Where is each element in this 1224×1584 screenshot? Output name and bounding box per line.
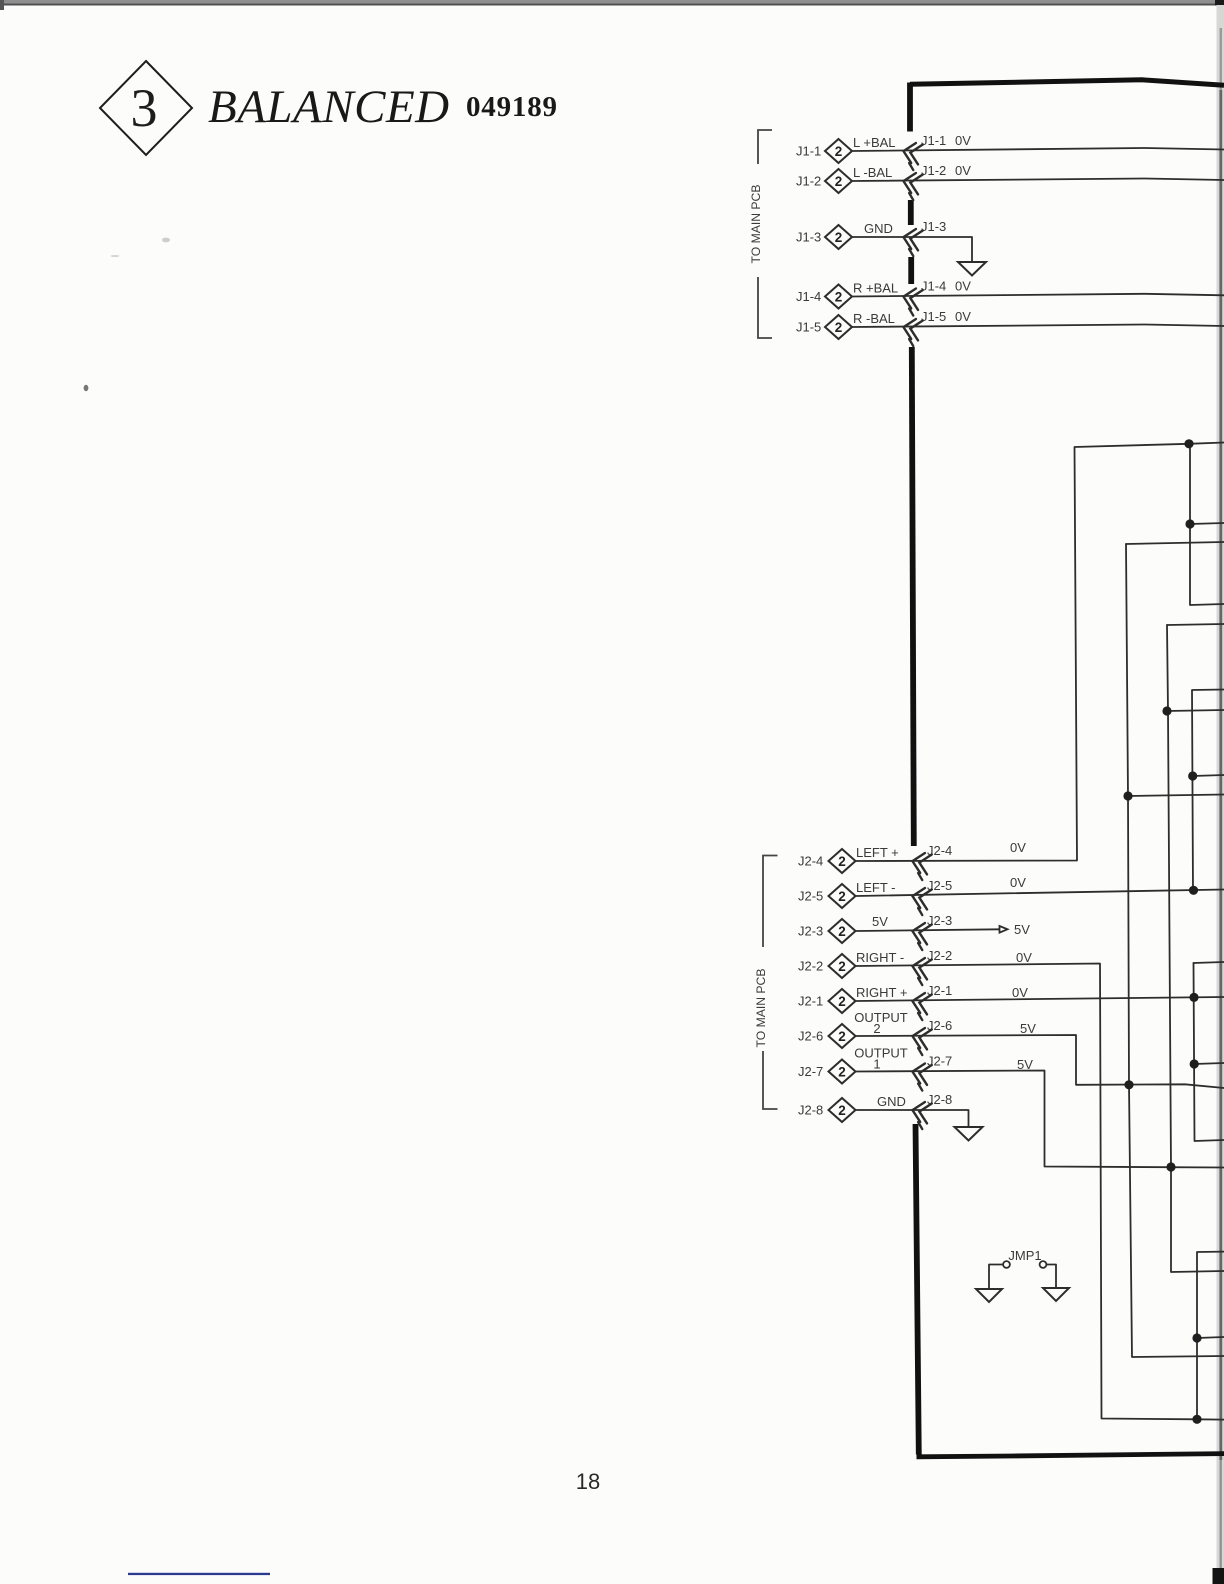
- svg-text:TO MAIN PCB: TO MAIN PCB: [754, 968, 768, 1047]
- svg-text:18: 18: [576, 1469, 600, 1494]
- svg-text:2: 2: [838, 1029, 846, 1044]
- wire J2-7 OUTPUT1 5V: [856, 1071, 1224, 1168]
- junction node A top: [1184, 439, 1193, 448]
- junction at 998: [1189, 993, 1198, 1002]
- svg-text:GND: GND: [864, 221, 893, 236]
- connector pin diamond J1-3 (2): [825, 225, 852, 249]
- cable connector chevron J1-1: [900, 141, 923, 171]
- svg-text:049189: 049189: [466, 91, 558, 123]
- wire J2-3 5V to arrow: [856, 929, 999, 931]
- svg-text:J1-4: J1-4: [796, 289, 821, 304]
- page top scan bar: [0, 0, 1224, 10]
- svg-text:2: 2: [838, 994, 846, 1009]
- wire D edge drop: [1192, 690, 1224, 892]
- ground symbol J1-3: [958, 262, 986, 276]
- svg-text:J1-4: J1-4: [921, 279, 946, 294]
- svg-text:0V: 0V: [955, 279, 971, 294]
- svg-text:2: 2: [838, 1064, 846, 1079]
- wire jog at 711: [1167, 710, 1224, 711]
- svg-text:3: 3: [131, 78, 158, 138]
- svg-text:2: 2: [835, 289, 843, 304]
- svg-text:J1-2: J1-2: [796, 174, 821, 189]
- bus segment 5: [916, 1124, 919, 1455]
- svg-text:0V: 0V: [955, 163, 971, 178]
- scan specks: [84, 238, 170, 392]
- wire JMP1 right leg: [1047, 1265, 1057, 1289]
- svg-text:2: 2: [838, 959, 846, 974]
- svg-text:BALANCED: BALANCED: [208, 81, 450, 133]
- svg-text:TO MAIN PCB: TO MAIN PCB: [749, 184, 763, 263]
- svg-text:J2-8: J2-8: [798, 1103, 823, 1118]
- wire stub at 1064: [1194, 1063, 1224, 1064]
- connector pin diamond J1-4 (2): [825, 285, 852, 309]
- wire J2-6 OUTPUT2 5V: [856, 1035, 1224, 1088]
- svg-text:1: 1: [873, 1057, 880, 1072]
- cable connector chevron J2-2: [909, 956, 932, 986]
- svg-text:J1-5: J1-5: [921, 309, 946, 324]
- connector pin diamond J2-1 (2): [829, 989, 856, 1013]
- ground symbol JMP1 left: [976, 1289, 1002, 1302]
- footer blue rule: [128, 1573, 270, 1575]
- cable connector chevron J1-2: [900, 171, 923, 201]
- wire stub at 963: [1194, 962, 1224, 963]
- svg-text:0V: 0V: [955, 309, 971, 324]
- bus segment 2: [908, 200, 914, 225]
- svg-text:R -BAL: R -BAL: [853, 311, 895, 326]
- page right scan edge: [1213, 5, 1224, 1584]
- wire J1-1 L +BAL to main PCB: [852, 148, 1224, 151]
- svg-text:J1-1: J1-1: [921, 133, 946, 148]
- cable connector chevron J1-5: [900, 317, 923, 347]
- ground symbol JMP1 right: [1043, 1288, 1069, 1301]
- cable connector chevron J2-3: [909, 921, 932, 951]
- svg-text:2: 2: [835, 230, 843, 245]
- connector pin diamond J2-8 (2): [829, 1098, 856, 1122]
- wire J2-8 GND to ground: [856, 1110, 969, 1127]
- wire J2-2 RIGHT- 0V down to edge: [856, 964, 1224, 1420]
- wire J2-5 LEFT- 0V: [856, 890, 1224, 897]
- svg-text:J2-5: J2-5: [798, 889, 823, 904]
- svg-text:OUTPUT: OUTPUT: [854, 1010, 908, 1025]
- ground symbol J2-8: [955, 1127, 983, 1141]
- svg-text:J2-7: J2-7: [798, 1064, 823, 1079]
- svg-text:JMP1: JMP1: [1008, 1248, 1041, 1263]
- svg-text:5V: 5V: [1014, 922, 1030, 937]
- J2 harness bracket TO MAIN PCB: [763, 856, 778, 1110]
- wire B long vertical: [1126, 544, 1224, 1357]
- svg-text:5V: 5V: [1017, 1057, 1033, 1072]
- svg-text:0V: 0V: [1010, 875, 1026, 890]
- cable connector chevron J1-3: [900, 227, 923, 257]
- cable connector chevron J2-8: [909, 1100, 932, 1130]
- svg-text:0V: 0V: [955, 133, 971, 148]
- svg-text:2: 2: [835, 174, 843, 189]
- svg-text:L -BAL: L -BAL: [853, 165, 892, 180]
- junction at 1085: [1124, 1080, 1133, 1089]
- svg-text:2: 2: [838, 924, 846, 939]
- connector pin diamond J2-5 (2): [829, 884, 856, 908]
- wire J1-4 R +BAL to main PCB: [852, 294, 1224, 297]
- junction at 1064: [1190, 1059, 1199, 1068]
- svg-text:J2-3: J2-3: [798, 924, 823, 939]
- junction at 776: [1188, 771, 1197, 780]
- svg-text:J1-3: J1-3: [796, 230, 821, 245]
- svg-text:RIGHT +: RIGHT +: [856, 985, 907, 1000]
- junction at 796: [1123, 791, 1132, 800]
- jumper JMP1: [1003, 1248, 1046, 1268]
- connector pin diamond J1-1 (2): [825, 139, 852, 163]
- svg-text:2: 2: [838, 889, 846, 904]
- wire stub at 796: [1128, 795, 1224, 797]
- cable connector chevron J2-1: [909, 991, 932, 1021]
- junction at 524: [1185, 519, 1194, 528]
- svg-text:LEFT +: LEFT +: [856, 845, 899, 860]
- wire C horizontal 625: [1167, 624, 1224, 625]
- wire B horizontal 544: [1126, 542, 1224, 544]
- svg-text:2: 2: [838, 1103, 846, 1118]
- svg-text:LEFT -: LEFT -: [856, 880, 896, 895]
- connector pin diamond J2-7 (2): [829, 1060, 856, 1084]
- svg-text:R +BAL: R +BAL: [853, 281, 898, 296]
- svg-text:J2-6: J2-6: [798, 1029, 823, 1044]
- connector pin diamond J2-4 (2): [829, 849, 856, 873]
- wire JMP1 left leg: [989, 1265, 1003, 1290]
- cable connector chevron J2-7: [909, 1061, 932, 1091]
- wire E edge drop 1252: [1197, 1252, 1224, 1420]
- svg-text:0V: 0V: [1016, 950, 1032, 965]
- main PCB bus thick vertical segment 1: [907, 83, 913, 132]
- svg-text:J1-3: J1-3: [921, 219, 946, 234]
- schematic frame bottom thick border: [917, 1454, 1224, 1457]
- schematic frame top thick border: [910, 80, 1224, 86]
- wire C long vertical: [1167, 625, 1224, 1272]
- wire node A vertical to edge: [1190, 444, 1224, 605]
- wire D2 vertical lower: [1194, 963, 1224, 1141]
- wire stub at 1338: [1197, 1337, 1224, 1338]
- cable connector chevron J2-6: [909, 1026, 932, 1056]
- svg-text:0V: 0V: [1010, 840, 1026, 855]
- svg-text:J1-5: J1-5: [796, 320, 821, 335]
- wire J2-1 RIGHT+ 0V: [856, 997, 1224, 1001]
- junction at 711: [1162, 706, 1171, 715]
- svg-text:OUTPUT: OUTPUT: [854, 1046, 908, 1061]
- svg-text:5V: 5V: [1020, 1021, 1036, 1036]
- connector pin diamond J1-5 (2): [825, 315, 852, 339]
- connector pin diamond J1-2 (2): [825, 169, 852, 193]
- svg-text:J1-2: J1-2: [921, 163, 946, 178]
- svg-text:J1-1: J1-1: [796, 144, 821, 159]
- connector pin diamond J2-6 (2): [829, 1024, 856, 1048]
- connector pin diamond J2-2 (2): [829, 954, 856, 978]
- bus segment 3: [908, 257, 914, 284]
- svg-text:2: 2: [873, 1021, 880, 1036]
- svg-text:2: 2: [835, 320, 843, 335]
- title step number diamond 3: [100, 61, 192, 155]
- cable connector chevron J2-4: [909, 851, 932, 881]
- junction at 1167: [1166, 1162, 1175, 1171]
- wire J2-4 LEFT+ 0V loop up: [856, 443, 1224, 862]
- J1 harness bracket TO MAIN PCB: [758, 130, 772, 338]
- cable connector chevron J2-5: [909, 886, 932, 916]
- cable connector chevron J1-4: [900, 286, 923, 316]
- bus segment 4: [912, 347, 914, 846]
- svg-text:J2-1: J2-1: [798, 994, 823, 1009]
- junction at 891: [1189, 886, 1198, 895]
- junction at 1338: [1192, 1333, 1201, 1342]
- svg-text:L +BAL: L +BAL: [853, 135, 896, 150]
- svg-text:J2-2: J2-2: [798, 959, 823, 974]
- svg-text:RIGHT -: RIGHT -: [856, 950, 904, 965]
- svg-text:2: 2: [838, 854, 846, 869]
- svg-text:5V: 5V: [872, 914, 888, 929]
- connector pin diamond J2-3 (2): [829, 919, 856, 943]
- svg-text:0V: 0V: [1012, 985, 1028, 1000]
- wire J1-2 L -BAL to main PCB: [852, 179, 1224, 182]
- wire stub at 524: [1190, 523, 1224, 524]
- wire J1-3 GND to ground: [852, 237, 972, 262]
- svg-text:GND: GND: [877, 1094, 906, 1109]
- arrow head 5V (J2-3): [1000, 926, 1008, 933]
- wire stub at 776: [1193, 775, 1224, 776]
- svg-text:2: 2: [835, 144, 843, 159]
- svg-text:J2-4: J2-4: [798, 854, 823, 869]
- wire J1-5 R -BAL to main PCB: [852, 325, 1224, 328]
- junction at 1419: [1192, 1415, 1201, 1424]
